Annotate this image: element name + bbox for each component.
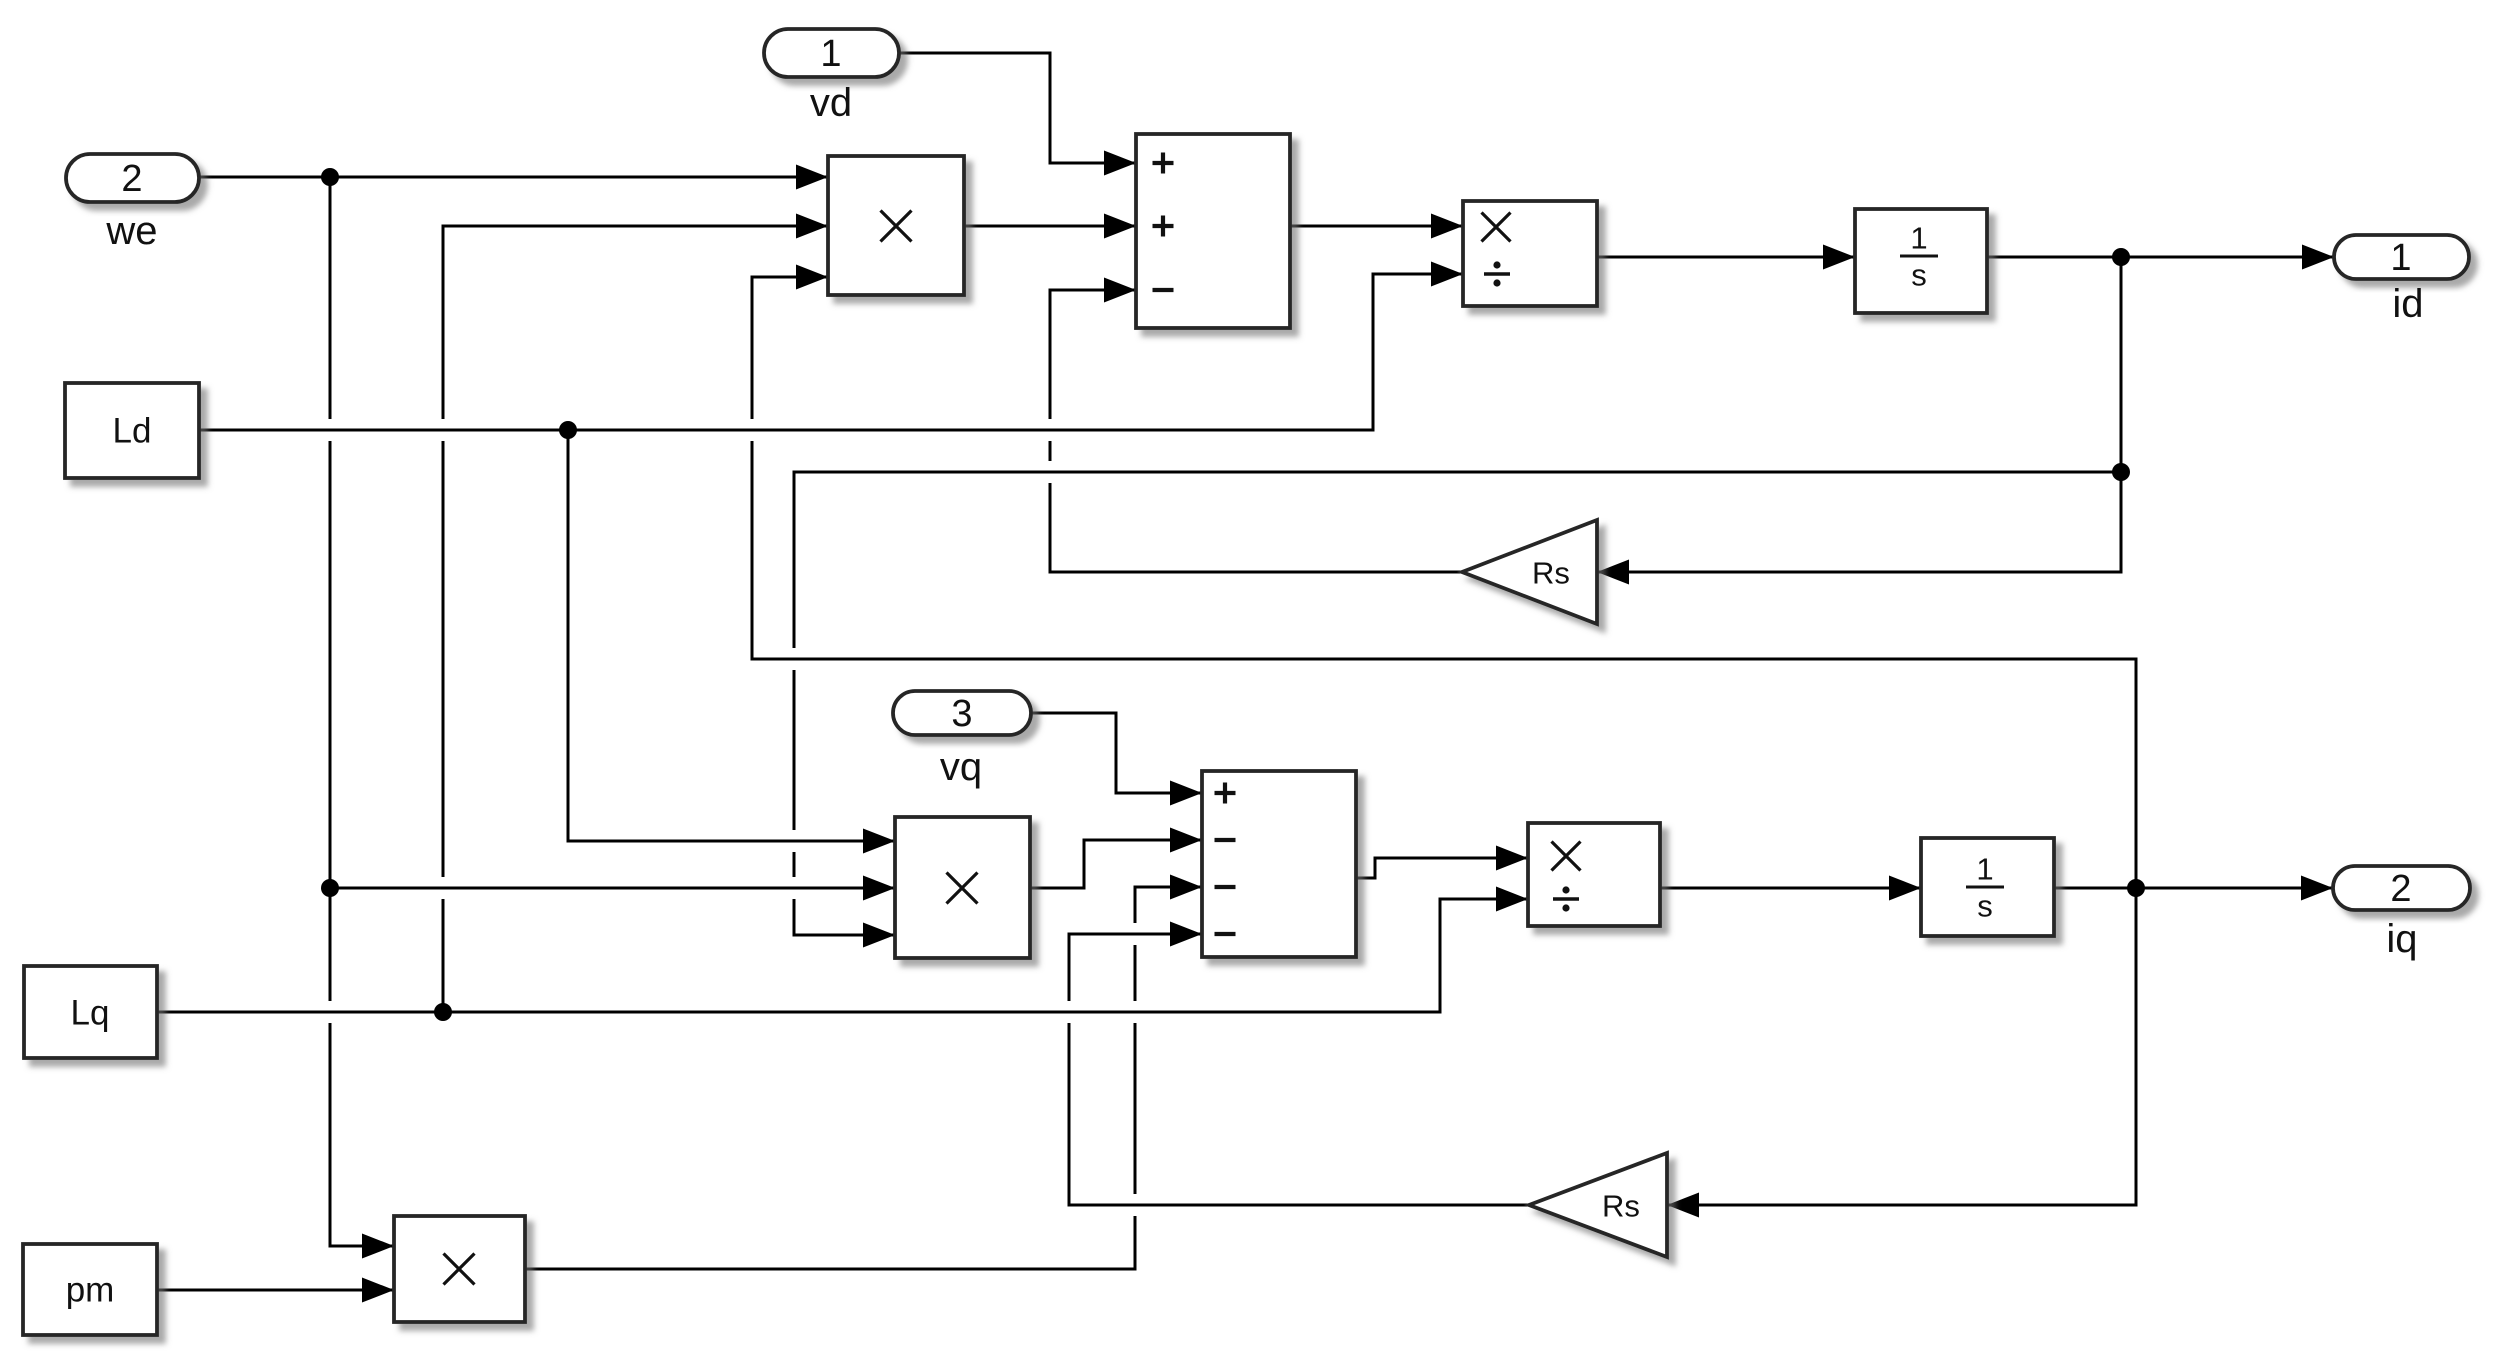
svg-text:2: 2	[121, 158, 142, 200]
arrow into Product1 port3	[796, 265, 828, 290]
arrow into Sum1 port1	[1104, 151, 1136, 176]
svg-text:1: 1	[2390, 237, 2411, 279]
wire Ld to Divide1 vertical	[1372, 274, 1375, 430]
arrow into outport id	[2302, 245, 2334, 270]
constant block Ld	[65, 383, 199, 478]
arrow into Sum2 port4	[1170, 922, 1202, 947]
wire Rs1 into Sum1 minus	[1049, 289, 1137, 292]
wire vd vertical	[1049, 53, 1052, 163]
wire vq into Sum2	[1115, 792, 1203, 795]
wire id feedback upper horizontal	[1045, 461, 1055, 483]
divide block Divide2	[1528, 823, 1660, 926]
wire vq output	[1029, 712, 1118, 715]
gain Rs2	[1529, 1153, 1667, 1257]
inport 1 vd oval	[764, 29, 899, 77]
wire iq junction to gain Rs2	[1667, 1204, 2138, 1207]
sum block Sum1 (+ + -)	[1136, 134, 1290, 328]
svg-text:we: we	[105, 209, 157, 253]
wire Sum2 output jog to Divide2	[1374, 857, 1529, 860]
outport 2 iq oval	[2333, 866, 2470, 910]
inport 2 we oval	[66, 154, 199, 202]
wire Divide2 to Integrator2	[1659, 887, 1921, 890]
junction id feedback split	[2112, 463, 2130, 481]
arrow into Product2 port3	[863, 923, 895, 948]
wire pm-product output	[524, 1268, 1137, 1271]
wire we into pm-product	[329, 1245, 395, 1248]
wire id feedback branch vertical	[793, 472, 796, 935]
junction id output	[2112, 248, 2130, 266]
arrow into Product2 port1	[863, 829, 895, 854]
svg-text:id: id	[2392, 282, 2423, 326]
junction iq output	[2127, 879, 2145, 897]
junction we branch top	[321, 168, 339, 186]
divide block Divide1	[1463, 201, 1597, 306]
wire Ld output	[325, 419, 335, 441]
svg-text:vq: vq	[940, 745, 982, 789]
wire iq feedback left vertical	[751, 277, 754, 659]
wire iq junction vertical	[2135, 658, 2138, 1206]
wire we into Product2	[438, 877, 448, 899]
integrator block Integrator1 1/s	[1855, 209, 1987, 313]
wire gain Rs2 output	[1130, 1194, 1140, 1216]
junction Ld branch	[559, 421, 577, 439]
svg-text:Rs: Rs	[1532, 556, 1570, 591]
svg-text:vd: vd	[810, 81, 852, 125]
arrow into Product1 port1	[796, 165, 828, 190]
wire gain Rs1 output	[1049, 571, 1464, 574]
wire iq feedback into Product1	[751, 276, 829, 279]
arrow into Integrator1	[1823, 245, 1855, 270]
arrow into outport iq	[2301, 876, 2333, 901]
wire Product1 to Sum1	[963, 225, 1136, 228]
wire Lq into Divide2 divisor	[1439, 898, 1529, 901]
wire Divide1 to Integrator1	[1596, 256, 1855, 259]
arrow into Sum2 port2	[1170, 828, 1202, 853]
svg-text:s: s	[1911, 258, 1927, 293]
product block Product1 (we*Lq*iq)	[828, 156, 964, 295]
arrow into Sum2 port1	[1170, 781, 1202, 806]
svg-text:3: 3	[951, 693, 972, 735]
wire Product2 jog upper	[1083, 839, 1203, 842]
wire Product2 output jog vertical	[1083, 840, 1086, 888]
wire pm output	[156, 1289, 394, 1292]
outport 1 id oval	[2334, 235, 2469, 279]
arrow into Integrator2	[1889, 876, 1921, 901]
integrator block Integrator2 1/s	[1921, 838, 2054, 936]
svg-text:s: s	[1977, 889, 1993, 924]
gain Rs1	[1462, 520, 1597, 624]
wire Lq output	[325, 1001, 335, 1023]
wire Integrator2 to outport iq	[2053, 887, 2333, 890]
wire Lq to Divide2 vertical	[1439, 899, 1442, 1012]
wire vd horizontal top	[897, 52, 1052, 55]
wire Lq up-branch vertical	[442, 226, 445, 1012]
wire id junction to gain Rs1	[1597, 571, 2123, 574]
wire we vertical trunk	[329, 177, 332, 1246]
arrow into Sum1 port2	[1104, 214, 1136, 239]
wire Ld down-branch vertical	[567, 430, 570, 841]
wire Rs2 into Sum2 minus	[1130, 923, 1140, 945]
wire iq feedback long horizontal	[789, 648, 799, 670]
svg-text:1: 1	[1910, 221, 1927, 256]
svg-text:Lq: Lq	[71, 994, 110, 1033]
arrow into pm-product port1	[362, 1234, 394, 1259]
junction Lq branch	[434, 1003, 452, 1021]
wire Rs1 output vertical	[1049, 290, 1052, 572]
constant block Lq	[24, 966, 157, 1058]
wire id junction down vertical	[2120, 257, 2123, 572]
sum block Sum2 (+ - - -)	[1202, 771, 1356, 957]
arrow into gain Rs2	[1667, 1193, 1699, 1218]
svg-text:Ld: Ld	[113, 412, 152, 451]
wire pm-product into Sum2	[1134, 886, 1203, 889]
wire Sum1 to Divide1	[1289, 225, 1463, 228]
arrow into Sum1 port3	[1104, 278, 1136, 303]
wire Ld into Divide1 divisor	[1372, 273, 1464, 276]
product block Product3 (we*pm)	[394, 1216, 525, 1322]
wire Product2 output stub	[1029, 887, 1086, 890]
arrow into Divide2 times	[1496, 846, 1528, 871]
wire we output	[200, 176, 828, 179]
svg-text:pm: pm	[66, 1271, 115, 1310]
inport 3 vq oval	[893, 691, 1031, 735]
svg-text:1: 1	[820, 33, 841, 75]
svg-text:Rs: Rs	[1602, 1189, 1640, 1224]
constant block pm	[23, 1244, 157, 1335]
wire vd into Sum1	[1049, 162, 1137, 165]
svg-text:2: 2	[2390, 868, 2411, 910]
arrow into Divide1 times	[1431, 214, 1463, 239]
arrow into Product2 port2	[863, 876, 895, 901]
junction we branch lower	[321, 879, 339, 897]
wire Ld into Product2	[789, 830, 799, 852]
wire Rs2 output vertical	[1068, 934, 1071, 1205]
wire Lq into Product1	[442, 225, 829, 228]
arrow into gain Rs1	[1597, 560, 1629, 585]
arrow into Divide1 divisor	[1431, 262, 1463, 287]
arrow into Sum2 port3	[1170, 875, 1202, 900]
wire pm-product feedback vertical	[1134, 887, 1137, 1269]
wire Sum2 output stub	[1355, 877, 1377, 880]
wire id feedback into Product2	[793, 934, 896, 937]
svg-text:1: 1	[1976, 852, 1993, 887]
arrow into Product1 port2	[796, 214, 828, 239]
wire Sum2 output jog vertical	[1374, 858, 1377, 878]
product block Product2 (we*Ld*id)	[895, 817, 1030, 958]
svg-text:iq: iq	[2386, 917, 2417, 961]
arrow into Divide2 divisor	[1496, 887, 1528, 912]
arrow into pm-product port2	[362, 1278, 394, 1303]
wire Integrator1 to outport id	[1986, 256, 2334, 259]
wire vq vertical	[1115, 713, 1118, 793]
